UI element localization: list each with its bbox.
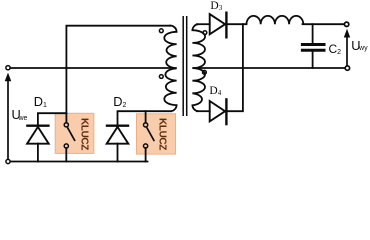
transformer dot secondary top: [203, 31, 207, 35]
inductor L: [247, 16, 304, 24]
wire: top rail primary: [66, 26, 170, 123]
transformer dot primary bottom: [159, 75, 163, 79]
wire: C2 bottom stub: [312, 52, 314, 69]
wire: input mid rail: [10, 67, 176, 69]
wire: output bottom rail: [194, 67, 345, 69]
wire: D3 cathode to inductor: [226, 23, 246, 25]
transformer dot secondary bottom: [203, 70, 207, 74]
label Uwy: [351, 38, 367, 53]
input voltage arrow Uwe: [5, 73, 12, 160]
transformer dot primary top: [159, 29, 163, 33]
wire: D1 bottom stub: [37, 144, 39, 162]
switch 1 (KLUCZ): [64, 123, 75, 148]
transformer secondary winding bottom: [192, 68, 205, 111]
input terminal top: [6, 66, 10, 70]
capacitor C2 plates: [301, 43, 326, 46]
wire: C2 top stub: [312, 24, 314, 43]
switch 2 (KLUCZ): [144, 123, 155, 148]
diode D1: [26, 126, 49, 144]
transformer secondary winding top: [192, 24, 205, 68]
transformer primary winding bottom: [164, 68, 176, 111]
output terminal bottom: [345, 66, 349, 70]
wire: D4 cathode and up to top rail: [225, 24, 243, 111]
wire: bottom rail: [10, 161, 147, 163]
label D3: [210, 0, 222, 12]
wire: secondary top to D3: [197, 23, 210, 25]
switch box 1 (KLUCZ): [55, 113, 94, 153]
transformer primary winding top: [164, 26, 176, 69]
wire: switch2 bottom stub: [145, 148, 147, 162]
wire: D1 top wire: [38, 113, 67, 124]
label KLUCZ 2: [157, 118, 168, 150]
label Uwe: [12, 107, 28, 122]
wire: D2 top wire to transformer: [118, 111, 172, 124]
diode D4: [210, 98, 227, 125]
wire: switch2 top stub: [145, 111, 147, 123]
diode D2: [106, 126, 129, 144]
switch box 2 (KLUCZ): [137, 114, 176, 154]
label D2: [113, 94, 126, 109]
diode D3: [210, 12, 227, 39]
label D4: [209, 85, 221, 97]
transformer core: [182, 16, 184, 116]
output terminal top: [344, 22, 348, 26]
wire: D2 bottom stub: [117, 144, 119, 162]
wire: switch1 bottom stub: [65, 148, 67, 161]
output voltage arrow Uwy: [344, 29, 350, 66]
wire: inductor to output terminal: [303, 23, 345, 25]
input terminal bottom: [6, 159, 10, 163]
label D1: [34, 94, 47, 109]
label C2: [329, 42, 342, 56]
label KLUCZ 1: [79, 118, 90, 150]
wire: secondary bottom to D4: [197, 110, 210, 112]
